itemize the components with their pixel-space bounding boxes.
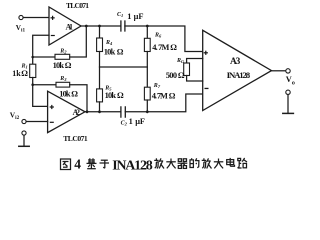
svg-text:Ω: Ω (170, 43, 177, 52)
pin - of A2 (50, 122, 54, 123)
caption hanzi dian (electric) (227, 158, 235, 166)
caption hanzi ji (base) (87, 158, 97, 168)
terminal Vi1 (19, 15, 23, 19)
svg-text:Vi2: Vi2 (10, 110, 20, 121)
capacitor C2 1uF (120, 107, 122, 117)
wire A1 output rail (81, 25, 121, 27)
wire node to resistor R2 (33, 56, 55, 58)
pin - of A3 (205, 88, 209, 89)
svg-text:4: 4 (74, 156, 81, 171)
wire ground terminal down (23, 135, 25, 146)
resistor R6 4.7M (144, 38, 150, 51)
svg-text:Vo: Vo (286, 75, 295, 87)
resistor R2 10k feedback of A1 (55, 54, 70, 59)
pin + of A3 (204, 51, 208, 55)
svg-text:C1: C1 (117, 12, 123, 18)
pin + of A2 (50, 105, 54, 109)
wire C1 to A3 + input (125, 26, 203, 52)
caption hanzi da (big) (214, 159, 224, 169)
wire C2 to A3 - input (125, 94, 202, 112)
svg-text:A1: A1 (66, 22, 74, 31)
svg-text:INA128: INA128 (112, 158, 153, 173)
svg-text:Ω: Ω (65, 61, 72, 70)
svg-text:TLC071: TLC071 (63, 134, 88, 143)
wire Vi2 to A2 inverting input (26, 121, 47, 123)
svg-text:10k: 10k (53, 61, 65, 70)
svg-text:1k: 1k (12, 69, 21, 78)
wire node to resistor R3 (33, 84, 56, 86)
svg-text:A2: A2 (73, 108, 81, 117)
capacitor C1 1uF (120, 21, 122, 31)
resistor R3 10k feedback of A2 (56, 82, 70, 87)
wire R6 bottom through rail to R7 top (146, 52, 148, 88)
terminal Vo ground (286, 90, 290, 94)
svg-text:R2: R2 (59, 49, 67, 55)
op-amp A2 (48, 91, 85, 132)
svg-text:Ω: Ω (71, 89, 78, 98)
junction dots (31, 25, 148, 114)
svg-text:R7: R7 (153, 83, 161, 89)
caption hanzi qi (device) (178, 159, 188, 169)
svg-text:R6: R6 (154, 33, 162, 39)
wire A1 inverting input to feedback node (33, 35, 49, 64)
caption hanzi da (big) (166, 159, 176, 169)
wire middle rail (100, 66, 148, 68)
resistor R1 1k (30, 64, 36, 77)
ground (19, 145, 29, 147)
wire A1 output node down to R4 (99, 26, 101, 38)
caption hanzi fang (amplify) (154, 158, 164, 168)
svg-text:10k: 10k (105, 91, 117, 100)
svg-text:500: 500 (166, 71, 177, 80)
svg-text:R3: R3 (59, 76, 67, 82)
terminal Vi2 ground (22, 131, 26, 135)
wire A2 output rail (85, 111, 121, 113)
terminal Vo (286, 69, 290, 73)
caption hanzi tu (figure) (61, 159, 71, 170)
caption hanzi lu (circuit) (238, 158, 247, 168)
pin + of A1 (51, 16, 55, 20)
wire RG bottom stub (187, 76, 203, 82)
wire A3 output (272, 70, 286, 72)
svg-text:Ω: Ω (117, 47, 124, 56)
svg-text:Ω: Ω (169, 92, 176, 101)
wire Vi1 to A1 + input (23, 17, 49, 19)
svg-text:Vi1: Vi1 (16, 24, 26, 34)
op-amp A1 (49, 7, 81, 45)
wire R7 bottom to A2 output rail (146, 100, 148, 112)
terminal Vi2 (22, 119, 26, 123)
caption hanzi yu (at) (100, 160, 110, 168)
wire R4 bottom through rail to R5 top (99, 52, 101, 89)
resistor RG 500 (184, 63, 190, 76)
op-amp A3 INA128 (203, 30, 272, 110)
wire top node down to R6 (146, 26, 148, 38)
svg-text:10k: 10k (59, 89, 71, 98)
svg-text:4. 7M: 4. 7M (152, 92, 168, 101)
svg-text:1μF: 1μF (129, 117, 145, 126)
svg-text:C2: C2 (121, 120, 128, 126)
wire RG top stub (187, 59, 203, 64)
wire R5 bottom to A2 output rail (99, 102, 101, 112)
wire R2 right up to A1 output (70, 26, 87, 57)
resistor R4 10k (97, 38, 103, 52)
svg-text:INA128: INA128 (227, 70, 251, 80)
caption hanzi fang (amplify) (202, 158, 212, 168)
svg-text:Ω: Ω (178, 71, 185, 80)
wire R1 bottom down to A2 + input (33, 78, 48, 107)
svg-text:TLC071: TLC071 (66, 1, 89, 10)
wire R3 right down to A2 output (70, 85, 87, 112)
svg-text:4. 7M: 4. 7M (152, 43, 169, 52)
resistor R7 4.7M (144, 87, 150, 100)
svg-text:R4: R4 (105, 40, 113, 46)
ground (283, 112, 294, 114)
svg-text:1μF: 1μF (127, 12, 143, 21)
svg-text:RG: RG (176, 58, 185, 64)
caption hanzi de (of) (190, 158, 199, 167)
pin - of A1 (51, 35, 55, 36)
svg-text:Ω: Ω (117, 91, 124, 100)
resistor R5 10k (97, 89, 103, 102)
svg-text:Ω: Ω (21, 69, 28, 78)
svg-text:10k: 10k (104, 47, 116, 56)
svg-text:A3: A3 (230, 57, 241, 67)
wire ground terminal down (287, 95, 289, 114)
caption figure 4 (61, 156, 247, 173)
